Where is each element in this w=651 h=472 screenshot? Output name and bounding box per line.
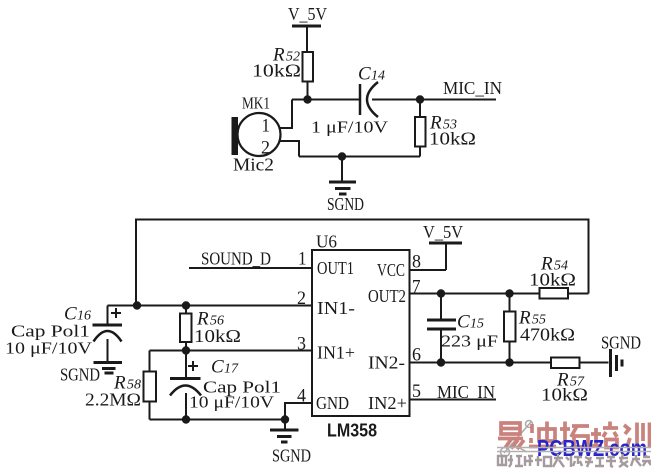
resistor R58 — [144, 351, 157, 420]
node J (R55 top) — [505, 289, 513, 297]
resistor R57 — [551, 358, 609, 369]
svg-text:MIC_IN: MIC_IN — [437, 382, 495, 402]
node D (loop junction) — [133, 301, 141, 309]
svg-text:IN1-: IN1- — [317, 298, 355, 318]
capacitor C16 — [93, 306, 123, 362]
node L (R55 bottom) — [505, 358, 513, 366]
label MK1 — [233, 94, 274, 175]
迪 — [529, 422, 556, 447]
培 — [590, 422, 618, 448]
watermark 易迪拓培训 (red) — [498, 422, 650, 450]
label C14 — [311, 64, 389, 137]
label C15 — [441, 312, 498, 351]
wire bottom rail (R58/C17/pin4) — [150, 419, 286, 421]
capacitor C14 — [360, 82, 378, 117]
svg-text:14: 14 — [371, 69, 385, 84]
svg-text:VCC: VCC — [377, 260, 405, 280]
svg-text:C: C — [211, 357, 224, 378]
wire C14 to MIC_IN — [372, 99, 496, 101]
label C17 — [189, 357, 281, 412]
label R53 — [429, 113, 476, 149]
resistor R56 — [180, 306, 192, 351]
wire feedback loop (R54 to C16 rail) — [136, 220, 589, 306]
svg-text:SGND: SGND — [272, 446, 311, 466]
svg-text:GND: GND — [316, 393, 349, 413]
power V_5V top — [288, 4, 327, 52]
svg-text:IN2-: IN2- — [368, 353, 405, 373]
watermark rules (gray lines) — [497, 447, 651, 449]
node B (R53 tap) — [416, 95, 424, 103]
resistor R54 — [540, 288, 589, 299]
ground SGND (pin4) — [270, 420, 311, 466]
label R54 — [529, 254, 576, 290]
wire pin1 (SOUND_D) — [189, 267, 312, 269]
op-amp U6 body — [312, 250, 410, 416]
svg-text:SGND: SGND — [601, 333, 641, 353]
svg-text:223 μF: 223 μF — [441, 332, 498, 351]
wire pin3 rail — [150, 350, 313, 352]
wire pin6 rail — [410, 362, 552, 364]
label R58 — [85, 373, 141, 410]
node C (ground tap) — [338, 152, 346, 160]
svg-text:17: 17 — [224, 362, 239, 377]
svg-text:SGND: SGND — [327, 194, 364, 214]
拓 — [560, 422, 589, 448]
wire node A to C14 — [292, 99, 360, 101]
capacitor C15 — [427, 294, 456, 363]
svg-text:2.2MΩ: 2.2MΩ — [85, 390, 141, 410]
svg-text:10kΩ: 10kΩ — [429, 129, 476, 149]
训 — [624, 423, 650, 448]
label R52 — [252, 45, 301, 81]
ground SGND (right, sideways) — [601, 333, 641, 378]
svg-text:10 μF/10V: 10 μF/10V — [5, 339, 93, 358]
U6 pin numbers — [297, 249, 421, 407]
watermark logo sketch — [501, 421, 533, 457]
svg-text:Mic2: Mic2 — [233, 155, 274, 175]
wire pin7 rail — [410, 293, 540, 295]
U6 pin names — [316, 258, 407, 413]
microphone MK1 — [232, 113, 281, 156]
svg-text:10kΩ: 10kΩ — [541, 385, 588, 405]
svg-text:OUT1: OUT1 — [317, 258, 354, 278]
svg-text:1 μF/10V: 1 μF/10V — [311, 118, 389, 137]
node A (R52/mic/C14 junction) — [303, 95, 311, 103]
wire mic pin2 down — [279, 141, 299, 157]
watermark 射频和天线设计专家 (gray) — [498, 454, 651, 467]
power V_5V right — [423, 222, 463, 270]
svg-text:10kΩ: 10kΩ — [529, 270, 576, 290]
resistor R52 — [303, 52, 314, 100]
svg-text:MK1: MK1 — [242, 94, 270, 113]
svg-text:C: C — [358, 64, 371, 85]
node G (C17 bottom) — [182, 415, 190, 423]
svg-text:LM358: LM358 — [327, 420, 377, 441]
svg-text:V_5V: V_5V — [288, 4, 327, 24]
svg-text:U6: U6 — [316, 232, 337, 252]
label R56 — [194, 309, 241, 347]
node H (pin4 gnd tap) — [281, 415, 289, 423]
ground SGND (top section) — [327, 157, 364, 215]
wire pin5 (MIC_IN) — [410, 399, 497, 401]
svg-text:SGND: SGND — [60, 365, 100, 385]
resistor R55 — [504, 294, 516, 363]
svg-text:470kΩ: 470kΩ — [520, 325, 575, 345]
node K (C15 bottom) — [437, 358, 445, 366]
svg-text:10 μF/10V: 10 μF/10V — [189, 393, 275, 412]
svg-text:V_5V: V_5V — [423, 222, 463, 242]
wire pin8 — [410, 269, 447, 271]
wire mic bottom rail — [299, 156, 420, 158]
node F (R56 bottom / C17 top) — [182, 346, 190, 354]
svg-text:15: 15 — [470, 317, 484, 332]
svg-text:IN2+: IN2+ — [368, 393, 407, 413]
svg-text:10kΩ: 10kΩ — [194, 326, 241, 346]
svg-text:1: 1 — [298, 249, 307, 270]
易 — [501, 423, 520, 434]
capacitor C17 — [170, 351, 201, 420]
label R57 — [541, 370, 588, 405]
wire pin2 rail — [108, 305, 313, 307]
ground SGND (C16) — [60, 363, 122, 385]
label R55 — [518, 308, 575, 345]
svg-text:1: 1 — [262, 116, 271, 137]
svg-text:MIC_IN: MIC_IN — [443, 78, 502, 98]
svg-text:C: C — [457, 312, 470, 333]
node E (R56 top) — [182, 301, 190, 309]
label C16 — [5, 304, 93, 358]
svg-text:IN1+: IN1+ — [317, 343, 355, 363]
svg-text:SOUND_D: SOUND_D — [201, 249, 271, 269]
wire mic pin1 to node A — [279, 100, 292, 129]
wire pin4 — [285, 403, 312, 420]
svg-text:10kΩ: 10kΩ — [252, 61, 301, 81]
resistor R53 — [415, 100, 426, 157]
node I (C15 top) — [437, 289, 445, 297]
svg-text:OUT2: OUT2 — [368, 286, 406, 306]
